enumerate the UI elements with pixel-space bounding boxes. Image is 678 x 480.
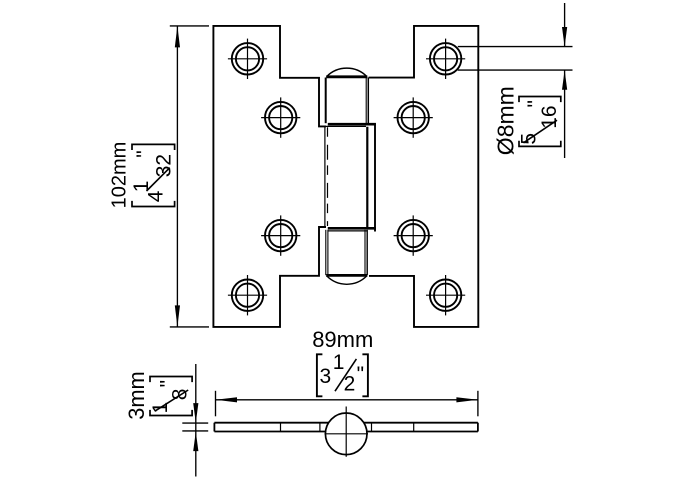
label [4 1/32"] inch mark (133, 150, 156, 157)
screw hole H1 top-left (228, 39, 267, 79)
knuckle joint 2 thick line (328, 227, 376, 230)
svg-text:Ø8mm: Ø8mm (492, 86, 518, 155)
label [5/16"] denominator 16 (538, 105, 561, 128)
dimension 3mm extension tick upper (182, 422, 208, 424)
label [5/16"] inch mark (524, 100, 547, 107)
knuckle bottom dome base thick line (326, 274, 367, 277)
side view leaf bar right end cap (477, 423, 479, 432)
side view knuckle junction tick left (319, 423, 321, 432)
dimension 102mm extension line top (170, 25, 209, 27)
label [1/8"] bracket open (150, 410, 192, 416)
dimension 102mm arrowhead top (175, 26, 180, 48)
svg-text:89mm: 89mm (312, 327, 373, 352)
screw hole H3 lower-mid-left (261, 215, 300, 255)
middle knuckle hidden pin line (dashed) (327, 127, 329, 226)
svg-text:1: 1 (333, 351, 345, 374)
hinge left leaf outline (213, 26, 326, 327)
top knuckle left edge (325, 78, 327, 124)
screw hole H6 mid-right (394, 97, 433, 137)
screw hole H8 bottom-right (426, 275, 465, 315)
screw hole H7 lower-mid-right (394, 215, 433, 255)
dimension Ø8mm leader line lower (564, 70, 566, 158)
label [3 1/2"] fraction slash (335, 359, 356, 391)
knuckle joint 2 thin line (328, 230, 367, 232)
side view barrel centerline horizontal (325, 433, 369, 435)
dimension Ø8mm arrowhead upper (562, 27, 567, 47)
svg-text:2: 2 (344, 372, 356, 395)
label [4 1/32"] bracket close (132, 144, 175, 150)
svg-text:": " (524, 100, 547, 107)
dimension 89mm extension line left (215, 391, 217, 417)
dimension Ø8mm extension line lower (458, 69, 573, 71)
side view leaf bar top edge left segment (214, 422, 328, 424)
knuckle top dome base thick line (326, 75, 367, 78)
side view knuckle junction tick right (371, 423, 373, 432)
label [4 1/32"] numerator 1 (130, 181, 153, 193)
dimension 89mm dimension line (216, 399, 478, 401)
dimension 102mm arrowhead bottom (175, 305, 180, 327)
label [4 1/32"] digit 4 (144, 190, 167, 202)
dimension Ø8mm leader line upper (564, 3, 566, 47)
dimension Ø8mm extension line upper (458, 46, 573, 48)
label [4 1/32"] bracket open (132, 201, 175, 207)
bottom knuckle right outer edge (366, 230, 368, 275)
dimension 3mm extension tick lower (182, 430, 208, 432)
side view leaf bar bottom edge right segment (367, 431, 478, 433)
knuckle top dome arc (327, 68, 367, 76)
dimension 102mm extension line bottom (170, 326, 209, 328)
label Ø8mm text (492, 86, 518, 155)
knuckle bottom dome arc (327, 276, 367, 284)
side view leaf bar top edge right segment (364, 422, 478, 424)
bottom knuckle left outer edge (325, 230, 327, 275)
dimension 89mm arrowhead right (456, 397, 478, 402)
label [1/8"] denominator 8 (168, 389, 191, 401)
label [5/16"] bracket open (519, 141, 561, 147)
dimension 3mm leader line (195, 364, 197, 477)
svg-text:1: 1 (130, 181, 153, 193)
dimension 3mm arrowhead lower (193, 432, 198, 452)
label [5/16"] bracket close (519, 97, 561, 103)
dimension 89mm extension line right (477, 391, 479, 417)
label [5/16"] fraction slash (524, 120, 558, 143)
hinge right leaf notch edge (374, 123, 376, 231)
top knuckle right inner edge (365, 78, 367, 124)
svg-text:102mm: 102mm (108, 142, 130, 209)
label [1/8"] numerator 1 (149, 402, 172, 414)
label 102mm text (108, 142, 130, 209)
label [4 1/32"] denominator 32 (152, 154, 175, 177)
middle knuckle left edge (324, 127, 326, 228)
top knuckle right outer edge (367, 78, 369, 124)
screw hole H4 bottom-left (228, 275, 267, 315)
hinge right leaf outline (369, 26, 479, 327)
label [3 1/2"] bracket close (362, 354, 368, 396)
label [1/8"] fraction slash (155, 390, 188, 411)
screw hole H2 mid-left (261, 97, 300, 137)
middle knuckle right edge (366, 127, 368, 228)
side view division tick left (280, 423, 282, 432)
label [1/8"] bracket close (150, 377, 192, 383)
knuckle joint 1 thin line (319, 125, 366, 127)
label [5/16"] numerator 5 (518, 133, 541, 145)
bottom knuckle left inner edge (327, 230, 329, 275)
screw hole H5 top-right (426, 39, 465, 79)
label [1/8"] inch mark (156, 380, 179, 387)
bottom knuckle right inner edge (364, 230, 366, 275)
side view barrel circle (325, 413, 367, 455)
svg-text:16: 16 (538, 105, 561, 128)
side view barrel centerline vertical (345, 407, 347, 457)
label 3mm text (124, 371, 149, 419)
svg-text:8: 8 (168, 389, 191, 401)
side view division tick right (413, 423, 415, 432)
dimension 3mm arrowhead upper (193, 403, 198, 423)
dimension Ø8mm arrowhead lower (562, 70, 567, 90)
dimension 102mm dimension line (176, 26, 178, 327)
dimension 89mm arrowhead left (216, 397, 238, 402)
label [3 1/2"] bracket open (317, 354, 323, 396)
svg-text:3: 3 (320, 365, 332, 388)
svg-text:": " (156, 380, 179, 387)
knuckle joint 1 thick line (328, 123, 376, 126)
side view leaf bar bottom edge left segment (214, 431, 325, 433)
side view leaf bar left end cap (213, 423, 215, 432)
label [4 1/32"] fraction slash (147, 168, 170, 191)
svg-text:": " (357, 363, 364, 386)
svg-text:": " (133, 150, 156, 157)
svg-text:3mm: 3mm (124, 371, 149, 419)
